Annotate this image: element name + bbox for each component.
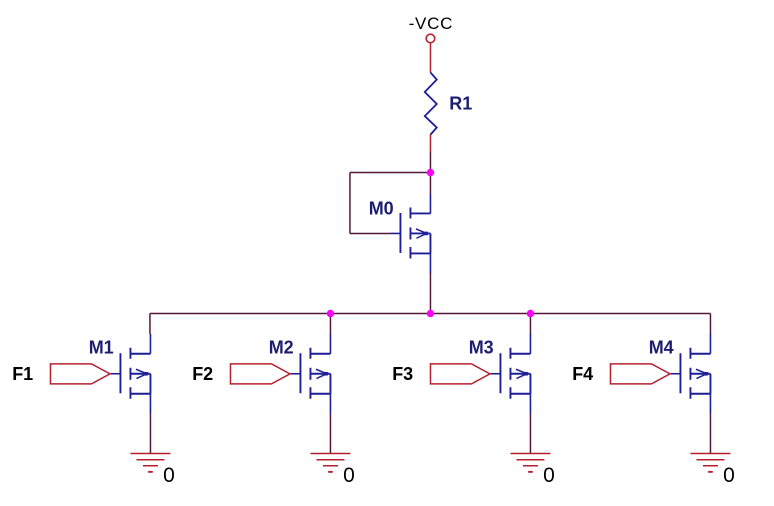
svg-text:M0: M0 (369, 199, 394, 219)
svg-text:F3: F3 (392, 364, 413, 384)
svg-text:0: 0 (543, 464, 555, 487)
svg-text:F2: F2 (192, 364, 213, 384)
svg-text:0: 0 (723, 464, 735, 487)
svg-text:0: 0 (343, 464, 355, 487)
svg-text:0: 0 (163, 464, 175, 487)
svg-text:M4: M4 (649, 338, 674, 358)
svg-text:-VCC: -VCC (409, 14, 453, 33)
svg-text:R1: R1 (449, 93, 472, 113)
svg-text:M3: M3 (469, 338, 494, 358)
svg-text:M2: M2 (269, 338, 294, 358)
svg-text:F1: F1 (12, 364, 33, 384)
svg-text:F4: F4 (572, 364, 593, 384)
svg-text:M1: M1 (89, 338, 114, 358)
